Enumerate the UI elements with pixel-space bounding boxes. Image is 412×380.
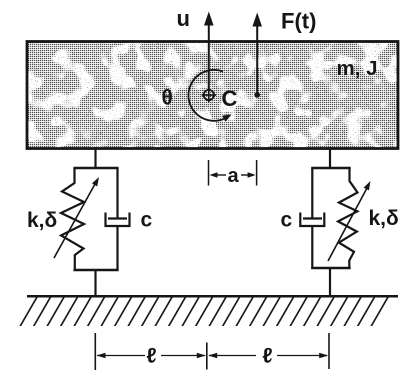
right unit: upper stem <box>329 147 331 169</box>
dimension a: right tick at F <box>256 160 258 186</box>
svg-text:F(t): F(t) <box>281 9 316 34</box>
svg-text:c: c <box>141 209 153 232</box>
left unit: upper stem <box>94 147 96 169</box>
right unit: top bar <box>311 167 351 169</box>
dimension l left segment: left arrow <box>97 353 146 359</box>
svg-text:u: u <box>177 6 190 31</box>
damper c left (rod, piston, cup) <box>106 168 130 271</box>
nonlinearity arrow through right spring <box>328 181 371 261</box>
svg-text:a: a <box>228 165 240 187</box>
force application point (dot) <box>254 92 260 98</box>
arrow F(t) <box>252 13 262 96</box>
right unit: bottom bar <box>311 267 351 269</box>
left unit: lower stem <box>94 270 96 297</box>
right unit: lower stem <box>329 268 331 297</box>
svg-text:ℓ: ℓ <box>263 345 273 368</box>
svg-text:C: C <box>222 86 238 111</box>
dimension l right segment: right arrow <box>277 353 328 359</box>
svg-text:c: c <box>281 209 293 232</box>
svg-text:ℓ: ℓ <box>147 345 157 368</box>
dimension l right segment: left arrow <box>208 353 256 359</box>
rotation arrow theta (ccw arc) <box>188 70 231 122</box>
damper c right (rod, piston, cup) <box>300 168 324 269</box>
arrow u (displacement at C) <box>204 12 214 91</box>
dimension a: left tick at C <box>208 160 210 186</box>
svg-text:k,δ: k,δ <box>27 209 57 232</box>
spring k,delta right <box>338 168 358 269</box>
ground hatching <box>14 298 398 327</box>
svg-text:k,δ: k,δ <box>369 207 399 230</box>
spring k,delta left <box>61 168 84 271</box>
ground line <box>27 295 398 298</box>
svg-text:θ: θ <box>162 87 173 110</box>
left unit: top bar <box>73 167 118 169</box>
dimension l left segment: right arrow <box>161 353 206 359</box>
nonlinearity arrow through left spring <box>54 177 99 258</box>
dimension l: right tick <box>328 333 330 369</box>
dimension a: left arrow <box>210 172 227 178</box>
dimension l: middle tick <box>206 343 208 370</box>
left unit: bottom bar <box>73 269 118 271</box>
dimension l: left tick <box>94 333 96 370</box>
svg-text:m, J: m, J <box>337 57 378 80</box>
center of mass C (circle-cross symbol) <box>202 88 216 102</box>
dimension a: right arrow <box>241 172 256 178</box>
mass block m,J (speckled fill) <box>27 42 398 149</box>
